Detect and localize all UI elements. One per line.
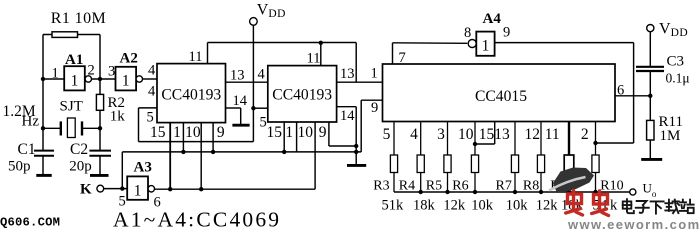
svg-text:C2: C2 [70,141,88,158]
svg-text:6: 6 [617,83,624,99]
svg-text:8: 8 [464,25,471,41]
svg-text:10: 10 [458,126,474,143]
svg-text:4: 4 [148,84,156,100]
svg-text:10: 10 [297,124,313,141]
svg-text:10k: 10k [506,198,529,214]
svg-text:SJT: SJT [60,99,83,115]
svg-text:9: 9 [503,25,510,41]
svg-text:9: 9 [371,100,378,116]
svg-text:1k: 1k [110,109,126,125]
svg-text:7: 7 [399,50,406,66]
svg-text:0.1μ: 0.1μ [666,71,690,86]
svg-text:15: 15 [266,124,282,141]
svg-text:1: 1 [52,66,59,82]
svg-text:13: 13 [230,68,245,84]
svg-text:R8: R8 [523,179,539,194]
svg-text:1M: 1M [660,128,681,144]
svg-text:5: 5 [383,126,391,143]
svg-text:4: 4 [410,126,418,143]
svg-text:11: 11 [545,126,560,143]
svg-text:1: 1 [134,183,142,200]
svg-text:1: 1 [122,73,130,90]
svg-text:2: 2 [88,63,95,79]
svg-text:R10: R10 [600,179,623,194]
svg-text:4: 4 [258,67,266,83]
svg-text:A4: A4 [483,11,502,27]
svg-text:R3: R3 [373,179,389,194]
svg-text:11: 11 [307,51,321,67]
svg-text:A3: A3 [134,160,152,176]
svg-text:1: 1 [482,38,490,55]
svg-text:CC4015: CC4015 [475,88,527,105]
svg-text:3: 3 [437,126,445,143]
svg-text:A1: A1 [65,52,83,68]
svg-text:4: 4 [148,63,156,79]
svg-text:Q606.COM: Q606.COM [0,215,60,229]
svg-text:10k: 10k [471,198,494,214]
svg-text:3: 3 [108,64,115,80]
svg-text:K: K [80,182,92,198]
svg-text:R1 10M: R1 10M [51,10,106,27]
svg-text:1: 1 [173,124,181,141]
svg-text:A1~A4:CC4069: A1~A4:CC4069 [113,208,281,231]
svg-text:50p: 50p [8,159,31,175]
svg-text:C3: C3 [667,54,685,70]
svg-text:13: 13 [340,66,355,82]
svg-text:CC40193: CC40193 [272,87,332,104]
svg-text:11: 11 [189,49,203,65]
svg-text:14: 14 [233,93,248,109]
svg-text:R5: R5 [426,179,442,194]
svg-text:Hz: Hz [22,114,40,130]
svg-text:18k: 18k [413,198,436,214]
svg-text:13: 13 [494,126,510,143]
svg-text:9: 9 [319,124,327,141]
svg-text:1: 1 [71,73,79,90]
svg-text:R7: R7 [496,179,512,194]
svg-text:9: 9 [217,124,225,141]
svg-text:CC40193: CC40193 [161,87,221,104]
svg-text:14: 14 [340,108,355,124]
svg-text:C1: C1 [18,141,36,158]
svg-text:12k: 12k [443,198,466,214]
svg-text:1: 1 [285,124,293,141]
svg-text:20p: 20p [69,159,92,175]
svg-text:12k: 12k [536,198,559,214]
svg-text:www.eeworm.com: www.eeworm.com [567,217,700,230]
svg-text:51k: 51k [382,198,405,214]
svg-text:2: 2 [581,126,589,143]
svg-text:1: 1 [371,66,378,82]
svg-text:12: 12 [525,126,541,143]
svg-text:R4: R4 [399,179,415,194]
svg-text:R6: R6 [452,179,468,194]
svg-text:15: 15 [479,126,495,143]
svg-text:10: 10 [185,124,201,141]
svg-text:15: 15 [150,124,166,141]
svg-text:A2: A2 [120,51,138,67]
